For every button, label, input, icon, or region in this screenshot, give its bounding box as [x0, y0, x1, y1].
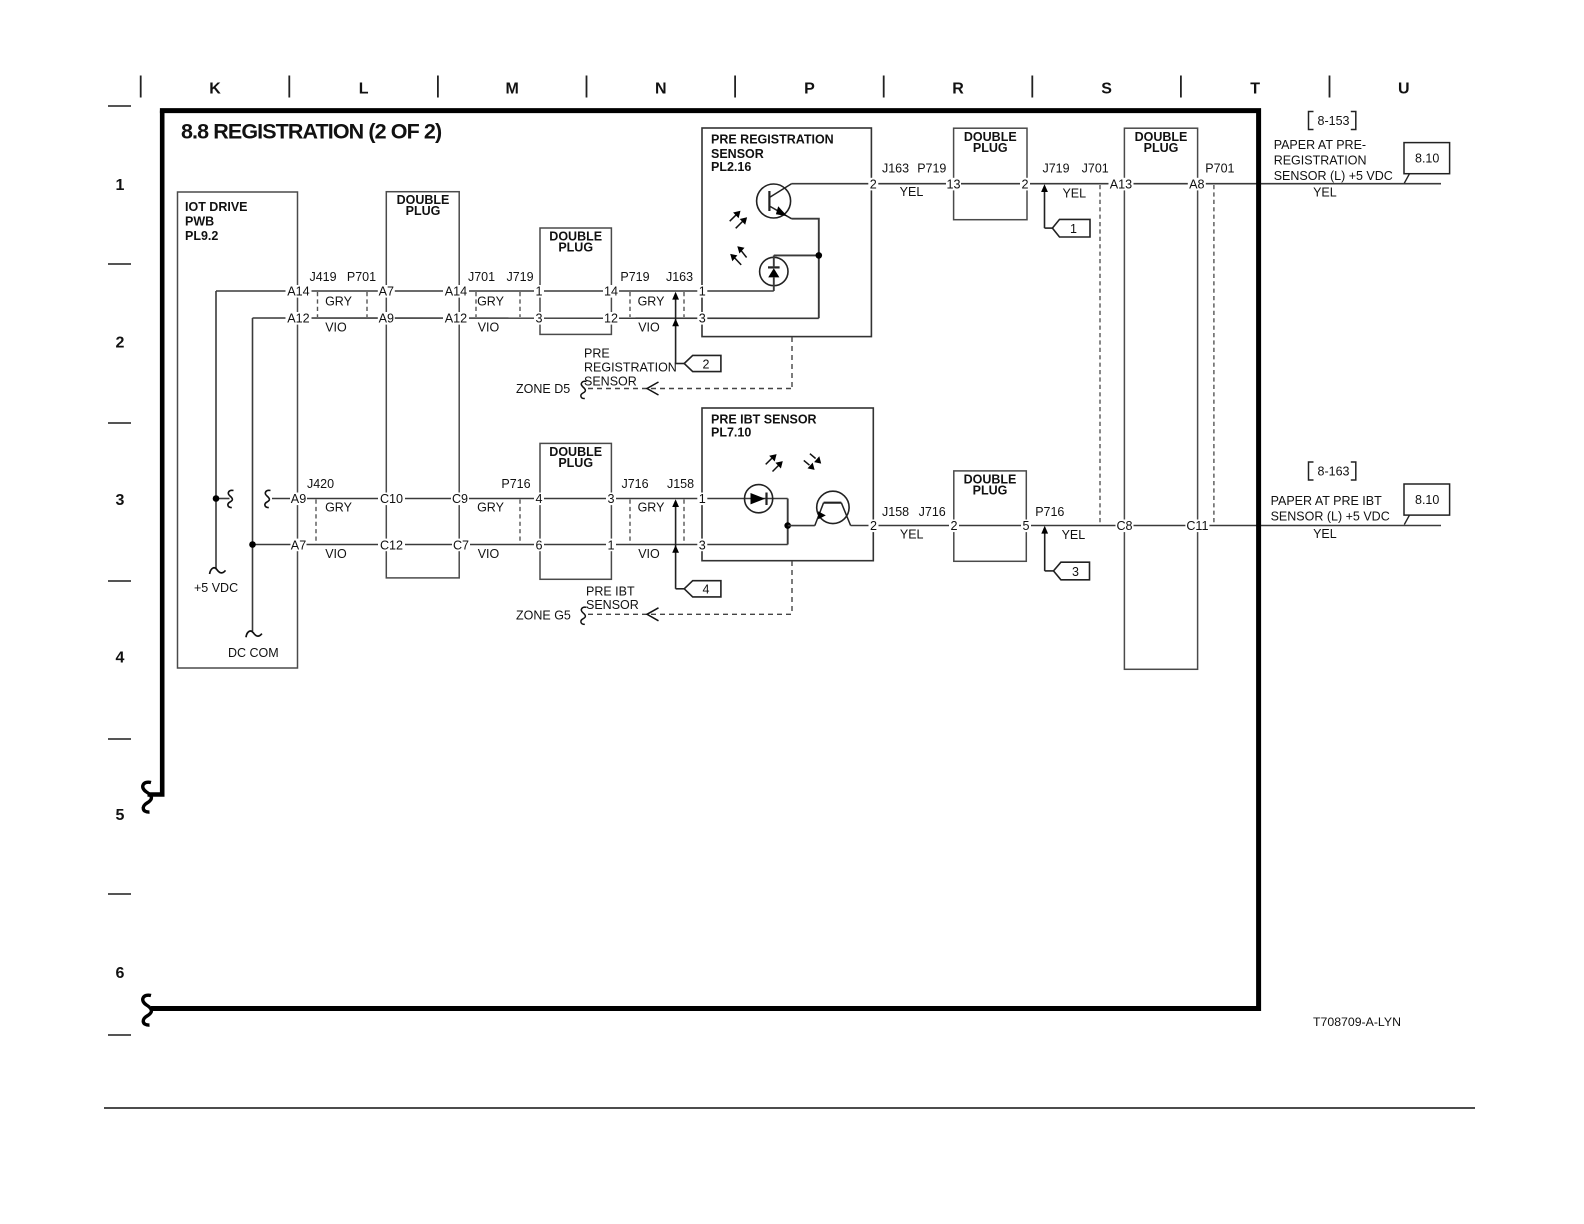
svg-text:J701: J701	[1082, 162, 1109, 176]
junction dot +5VDC to row3	[213, 495, 220, 502]
svg-text:PL9.2: PL9.2	[185, 229, 218, 243]
svg-text:L: L	[359, 80, 369, 97]
zone D5 squiggle	[581, 381, 587, 398]
svg-text:VIO: VIO	[325, 547, 347, 561]
phototransistor Q1 in pre registration sensor	[757, 184, 792, 219]
svg-text:2: 2	[870, 519, 877, 533]
svg-text:SENSOR (L) +5 VDC: SENSOR (L) +5 VDC	[1271, 510, 1390, 524]
svg-text:J719: J719	[1042, 162, 1069, 176]
svg-text:C12: C12	[380, 538, 403, 552]
svg-text:2: 2	[1021, 178, 1028, 192]
sensor PL7.10 pin 2	[869, 520, 879, 533]
connector dashed line J419	[316, 185, 1214, 544]
DP3 pin 1	[606, 539, 616, 552]
phototransistor Q2 in pre IBT sensor	[815, 491, 851, 525]
svg-text:C10: C10	[380, 492, 403, 506]
svg-text:4: 4	[116, 650, 125, 667]
svg-text:SENSOR: SENSOR	[586, 598, 639, 612]
double plug DP5 tall box right	[1124, 128, 1197, 669]
svg-text:J419: J419	[309, 270, 336, 284]
wire Q1 emitter to junction	[792, 219, 819, 319]
svg-text:DC COM: DC COM	[228, 646, 279, 660]
DP1 pin A12	[443, 312, 469, 325]
DP2 pin 1	[534, 285, 544, 298]
svg-text:VIO: VIO	[638, 547, 660, 561]
net label paper at pre IBT sensor	[1271, 494, 1390, 524]
DP1 pin C12	[378, 539, 405, 552]
DP5 pin A13	[1109, 178, 1134, 191]
wire row3 GRY net: IOT A9 to pre IBT sensor pin1	[216, 498, 788, 500]
svg-text:J163: J163	[666, 270, 693, 284]
svg-text:REGISTRATION: REGISTRATION	[584, 361, 677, 375]
svg-text:3: 3	[535, 312, 542, 326]
connector dashed line J701 right tall	[1099, 185, 1101, 524]
zone D5 open arrowhead	[647, 382, 659, 395]
pin labels	[286, 178, 1210, 553]
svg-text:2: 2	[870, 178, 877, 192]
svg-text:J163: J163	[882, 162, 909, 176]
connector dashed line J163	[683, 292, 685, 317]
svg-text:YEL: YEL	[1062, 187, 1086, 201]
svg-text:8.10: 8.10	[1415, 493, 1439, 507]
svg-text:PLUG: PLUG	[973, 483, 1008, 497]
sensor PL2.16 pin 3	[697, 312, 707, 325]
DP4 pin 13	[946, 178, 961, 191]
svg-text:J716: J716	[621, 477, 648, 491]
svg-text:YEL: YEL	[900, 528, 924, 542]
junction dot pre IBT node	[784, 522, 791, 529]
svg-text:8-163: 8-163	[1318, 465, 1350, 479]
pre IBT sensor box PL7.10	[702, 408, 873, 561]
svg-text:PRE IBT SENSOR: PRE IBT SENSOR	[711, 412, 817, 426]
flag 4 arrow	[672, 499, 721, 597]
DP1 pin A9	[378, 312, 395, 325]
svg-text:J158: J158	[667, 477, 694, 491]
net tag 8-163	[1309, 462, 1356, 480]
svg-text:A7: A7	[379, 285, 394, 299]
svg-text:PAPER AT PRE-: PAPER AT PRE-	[1274, 138, 1366, 152]
svg-text:A12: A12	[287, 312, 309, 326]
DP2 pin 14	[603, 285, 619, 298]
connector dashed line P716 left	[519, 500, 521, 545]
LED D1 in pre registration sensor	[760, 255, 788, 291]
svg-text:14: 14	[604, 285, 618, 299]
wire row1 GRY net: IOT A14 to pre-registration sensor pin1	[216, 290, 774, 292]
svg-text:IOT DRIVE: IOT DRIVE	[185, 200, 248, 214]
svg-text:12: 12	[604, 312, 618, 326]
pre registration sensor box PL2.16	[702, 128, 871, 337]
flag 1 arrow	[1041, 184, 1090, 237]
sensor PL2.16 pin 2	[868, 178, 878, 191]
svg-text:A14: A14	[287, 285, 309, 299]
DP6 pin 2	[949, 520, 959, 533]
photodiode D2 in pre IBT sensor	[745, 485, 773, 513]
svg-text:PL2.16: PL2.16	[711, 160, 751, 174]
IOT pin A9	[290, 493, 307, 506]
svg-text:5: 5	[1022, 519, 1029, 533]
svg-text:PWB: PWB	[185, 215, 214, 229]
zone D5 dashed note line	[588, 337, 792, 389]
wire row4 VIO net: IOT A7 to pre IBT sensor pin3	[253, 544, 788, 546]
DP1 pin C7	[452, 539, 470, 552]
junction dot DC COM to row4	[249, 541, 256, 548]
wire hop squiggle left on row3	[228, 490, 234, 507]
svg-text:SENSOR (L) +5 VDC: SENSOR (L) +5 VDC	[1274, 169, 1393, 183]
svg-text:2: 2	[116, 335, 125, 352]
svg-text:A9: A9	[291, 492, 306, 506]
svg-text:VIO: VIO	[325, 320, 347, 334]
DP6 pin 5	[1021, 520, 1031, 533]
DP3 pin 4	[534, 493, 544, 506]
svg-text:A12: A12	[445, 312, 467, 326]
svg-text:T708709-A-LYN: T708709-A-LYN	[1313, 1015, 1401, 1029]
double plug DP1 box	[386, 192, 459, 578]
svg-text:VIO: VIO	[478, 320, 500, 334]
DP1 pin A14	[443, 285, 469, 298]
svg-text:U: U	[1398, 80, 1410, 97]
svg-text:GRY: GRY	[325, 501, 353, 515]
DP5 pin A8	[1188, 178, 1206, 191]
svg-text:8.8 REGISTRATION (2 OF 2): 8.8 REGISTRATION (2 OF 2)	[181, 120, 442, 144]
svg-text:S: S	[1101, 80, 1112, 97]
svg-text:J701: J701	[468, 270, 495, 284]
IOT pin A7	[291, 539, 307, 552]
DP2 pin 3	[534, 312, 544, 325]
svg-text:YEL: YEL	[1313, 527, 1337, 541]
svg-text:8-153: 8-153	[1318, 114, 1350, 128]
DP2 pin 12	[603, 312, 619, 325]
svg-text:1: 1	[699, 285, 706, 299]
svg-text:REGISTRATION: REGISTRATION	[1274, 154, 1367, 168]
IOT pin A12	[286, 312, 312, 325]
row ruler dashes	[108, 106, 131, 1035]
svg-text:+5 VDC: +5 VDC	[194, 581, 238, 595]
svg-text:1: 1	[699, 492, 706, 506]
svg-text:P719: P719	[620, 270, 649, 284]
connector dashed line J716	[629, 500, 631, 545]
svg-text:ZONE G5: ZONE G5	[516, 608, 571, 622]
light arrows from D2	[766, 458, 779, 471]
wire DC COM vertical from row2	[252, 318, 254, 631]
svg-text:J158: J158	[882, 505, 909, 519]
wire hop squiggle right on row3	[265, 490, 271, 507]
svg-text:PLUG: PLUG	[1144, 141, 1179, 155]
svg-text:SENSOR: SENSOR	[711, 147, 764, 161]
svg-text:3: 3	[699, 312, 706, 326]
wire tag box 8.10 bottom	[1404, 484, 1450, 525]
svg-text:3: 3	[699, 538, 706, 552]
DP1 pin A7	[378, 285, 395, 298]
svg-text:YEL: YEL	[900, 185, 924, 199]
svg-text:2: 2	[950, 519, 957, 533]
svg-text:C9: C9	[452, 492, 468, 506]
svg-text:C8: C8	[1116, 519, 1132, 533]
svg-text:A13: A13	[1110, 178, 1132, 192]
connector dashed line P701 right tall	[1213, 185, 1215, 524]
svg-text:M: M	[506, 80, 519, 97]
DP3 pin 3	[606, 493, 616, 506]
svg-text:YEL: YEL	[1062, 528, 1086, 542]
DP1 pin C9	[451, 493, 469, 506]
svg-text:P716: P716	[501, 477, 530, 491]
wire D2 to junction and pin3	[787, 499, 789, 545]
svg-text:N: N	[655, 80, 667, 97]
footer rule	[104, 1107, 1475, 1109]
svg-text:YEL: YEL	[1313, 186, 1337, 200]
svg-text:P: P	[804, 80, 815, 97]
svg-text:T: T	[1250, 80, 1260, 97]
svg-text:GRY: GRY	[638, 501, 666, 515]
svg-text:PLUG: PLUG	[406, 204, 441, 218]
DP5 pin C8	[1116, 520, 1134, 533]
svg-text:GRY: GRY	[477, 501, 505, 515]
column ruler ticks	[141, 76, 1330, 98]
svg-text:6: 6	[116, 965, 125, 982]
svg-text:3: 3	[607, 492, 614, 506]
sensor PL7.10 pin 1	[697, 493, 707, 506]
svg-text:PLUG: PLUG	[558, 456, 593, 470]
connector dashed line J701 left	[475, 292, 477, 317]
svg-text:PRE: PRE	[584, 347, 610, 361]
IOT DRIVE PWB box PL9.2	[178, 192, 298, 668]
svg-text:6: 6	[535, 538, 542, 552]
net label paper at pre-registration sensor	[1274, 138, 1393, 183]
svg-text:A8: A8	[1189, 178, 1204, 192]
svg-text:1: 1	[535, 285, 542, 299]
connector dashed line P701 left	[366, 292, 368, 317]
wire row2 VIO net: IOT A12 to pre-registration sensor pin3	[253, 317, 819, 319]
svg-text:A7: A7	[291, 538, 306, 552]
svg-text:J716: J716	[919, 505, 946, 519]
svg-text:PRE IBT: PRE IBT	[586, 585, 635, 599]
svg-text:C11: C11	[1186, 519, 1208, 533]
DP5 pin C11	[1185, 520, 1209, 533]
DP1 pin C10	[378, 493, 405, 506]
svg-text:P716: P716	[1035, 505, 1064, 519]
svg-text:VIO: VIO	[638, 320, 660, 334]
zone G5 open arrowhead	[647, 608, 659, 621]
svg-text:SENSOR: SENSOR	[584, 375, 637, 389]
svg-text:1: 1	[116, 177, 125, 194]
double plug DP2 box	[540, 228, 611, 334]
svg-text:P701: P701	[1205, 162, 1234, 176]
svg-text:3: 3	[116, 492, 125, 509]
wire junction to Q2 emitter	[788, 525, 815, 527]
wire D1 cathode to junction	[774, 254, 819, 256]
wire tag box 8.10 top	[1404, 143, 1450, 184]
svg-text:PRE REGISTRATION: PRE REGISTRATION	[711, 132, 834, 146]
connector dashed line J719 left	[519, 292, 521, 317]
DP4 pin 2	[1020, 178, 1030, 191]
svg-text:GRY: GRY	[325, 294, 353, 308]
row ruler numbers	[116, 177, 125, 982]
wire +5VDC vertical from row1	[215, 291, 217, 568]
light arrows into Q1	[730, 215, 743, 229]
svg-text:J420: J420	[307, 477, 334, 491]
zone G5 labels	[516, 585, 639, 623]
zone D5 labels	[516, 347, 677, 397]
junction dot emitter/cathode node	[816, 252, 823, 259]
svg-text:A9: A9	[379, 312, 394, 326]
svg-text:PAPER AT PRE IBT: PAPER AT PRE IBT	[1271, 494, 1383, 508]
svg-text:GRY: GRY	[638, 294, 666, 308]
connector dashed line P719	[629, 292, 631, 317]
svg-text:C7: C7	[453, 538, 469, 552]
wire rowB YEL net: pre IBT sensor pin2 to right margin	[851, 525, 1441, 527]
svg-text:K: K	[209, 80, 221, 97]
zone G5 squiggle	[581, 607, 587, 624]
svg-text:P719: P719	[917, 162, 946, 176]
sensor PL2.16 pin 1	[697, 285, 707, 298]
svg-text:5: 5	[116, 807, 125, 824]
svg-text:13: 13	[946, 178, 960, 192]
double plug DP3 box	[540, 443, 611, 579]
column ruler letters	[209, 80, 1409, 97]
svg-text:4: 4	[535, 492, 542, 506]
zone G5 dashed note line	[588, 561, 792, 614]
flag 2 arrow	[672, 292, 721, 372]
light arrows from D1	[734, 250, 746, 265]
svg-text:4: 4	[703, 583, 710, 597]
svg-text:R: R	[952, 80, 964, 97]
break squiggle +5VDC wire end	[210, 568, 226, 574]
light arrows into Q2	[804, 454, 816, 466]
svg-text:GRY: GRY	[477, 294, 505, 308]
svg-text:2: 2	[703, 357, 710, 371]
connector dashed line J158	[683, 500, 685, 545]
wire rowT YEL net: sensor pin2 through plugs to right margin	[792, 183, 1442, 185]
svg-text:P701: P701	[347, 270, 376, 284]
DP3 pin 6	[534, 539, 544, 552]
connector dashed line J420	[315, 500, 317, 545]
svg-text:PLUG: PLUG	[558, 241, 593, 255]
double plug DP6 box lower right	[954, 471, 1027, 561]
IOT pin A14	[286, 285, 312, 298]
drawing frame	[148, 111, 1259, 1009]
svg-text:PLUG: PLUG	[973, 141, 1008, 155]
break squiggle DC COM wire end	[246, 631, 262, 637]
svg-text:VIO: VIO	[478, 547, 500, 561]
net tag 8-153	[1309, 112, 1356, 130]
svg-text:8.10: 8.10	[1415, 152, 1439, 166]
double plug DP4 box top right	[954, 128, 1027, 220]
svg-text:ZONE D5: ZONE D5	[516, 382, 570, 396]
svg-text:J719: J719	[506, 270, 533, 284]
svg-text:A14: A14	[445, 285, 467, 299]
flag 3 arrow	[1041, 526, 1089, 580]
svg-text:1: 1	[607, 538, 614, 552]
sensor PL7.10 pin 3	[697, 539, 707, 552]
svg-text:3: 3	[1072, 565, 1079, 579]
svg-text:PL7.10: PL7.10	[711, 426, 751, 440]
svg-text:1: 1	[1070, 222, 1077, 236]
